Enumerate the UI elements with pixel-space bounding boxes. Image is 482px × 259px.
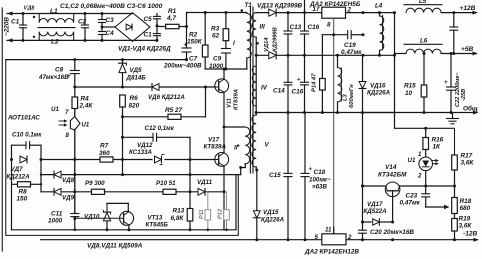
wire bbox=[395, 55, 455, 155]
wire +12V feed bbox=[393, 11, 396, 128]
zener VD12 bbox=[129, 142, 164, 165]
svg-text:+5В: +5В bbox=[461, 46, 474, 53]
svg-text:С16: С16 bbox=[292, 89, 304, 96]
svg-text:КД226А: КД226А bbox=[367, 90, 391, 97]
svg-text:R19: R19 bbox=[459, 216, 471, 223]
resistor R7 bbox=[99, 143, 113, 163]
wire bbox=[205, 68, 247, 71]
transistor VT13 bbox=[75, 203, 169, 231]
capacitor C6 bbox=[144, 26, 161, 42]
svg-text:2: 2 bbox=[347, 234, 352, 241]
svg-text:R1: R1 bbox=[168, 8, 177, 15]
capacitor C7 bbox=[163, 13, 202, 70]
wire base line bbox=[361, 185, 456, 188]
inductor L3 bbox=[336, 54, 355, 113]
svg-text:U1: U1 bbox=[408, 157, 416, 164]
svg-text:VД8: VД8 bbox=[62, 177, 75, 184]
svg-text:200мк~400В: 200мк~400В bbox=[163, 63, 202, 70]
svg-text:С1,С2 0,068мк~400В С3-С6 10: С1,С2 0,068мк~400В С3-С6 1000 bbox=[60, 3, 163, 10]
capacitor C4 bbox=[99, 26, 115, 42]
capacitor C23 bbox=[400, 186, 430, 207]
svg-text:Р11: Р11 bbox=[199, 209, 205, 219]
svg-text:VД17: VД17 bbox=[367, 201, 383, 208]
node ~220V label bbox=[4, 17, 11, 36]
wire -12V rail bbox=[41, 238, 477, 241]
svg-text:С14: С14 bbox=[273, 88, 285, 95]
wire pin 8 bbox=[327, 18, 335, 234]
svg-text:VД12: VД12 bbox=[137, 142, 153, 149]
transistor V11 bbox=[215, 69, 240, 129]
svg-text:ДА2 КР142ЕН12В: ДА2 КР142ЕН12В bbox=[304, 249, 359, 256]
wire scan border bbox=[1, 8, 3, 251]
node +5V output bbox=[461, 46, 478, 55]
inductor L5 bbox=[404, 0, 476, 13]
svg-text:С7: С7 bbox=[189, 56, 198, 63]
svg-text:IV: IV bbox=[261, 85, 268, 92]
diode VD9 bbox=[41, 188, 224, 201]
svg-text:11: 11 bbox=[325, 227, 332, 234]
svg-text:3,6К: 3,6К bbox=[459, 223, 473, 230]
svg-text:С11: С11 bbox=[51, 211, 63, 218]
capacitor C13 bbox=[284, 13, 302, 56]
svg-text:0,47мк: 0,47мк bbox=[341, 49, 362, 56]
svg-text:VД9: VД9 bbox=[62, 195, 75, 202]
capacitor C1 bbox=[11, 12, 27, 42]
svg-text:Общ: Общ bbox=[463, 105, 478, 113]
resistor R19 bbox=[452, 214, 473, 242]
resistor R4 bbox=[72, 87, 93, 115]
svg-text:×63В: ×63В bbox=[312, 184, 327, 191]
node ~220V input bottom bbox=[7, 38, 157, 42]
svg-text:8: 8 bbox=[66, 132, 70, 139]
transformer T1 core bbox=[245, 2, 254, 173]
svg-text:R15: R15 bbox=[404, 83, 416, 90]
wire DC+ rail bbox=[187, 11, 247, 14]
wire minus bus bbox=[6, 58, 188, 61]
svg-text:R13: R13 bbox=[173, 208, 185, 215]
inductor L2 bbox=[33, 32, 74, 46]
svg-text:3,6К: 3,6К bbox=[461, 160, 475, 167]
svg-text:III: III bbox=[260, 24, 265, 31]
svg-text:7: 7 bbox=[65, 109, 69, 116]
diode VD15 bbox=[253, 170, 284, 240]
wire drive line bbox=[40, 158, 216, 161]
svg-text:КД212А: КД212А bbox=[7, 174, 31, 181]
capacitor C16 bbox=[301, 13, 320, 56]
op-amp U2 DA2 regulator KR142EN5B bbox=[309, 1, 361, 18]
resistor R13 bbox=[171, 160, 193, 230]
svg-text:6,8К: 6,8К bbox=[171, 215, 185, 222]
svg-text:VД6 КД212А: VД6 КД212А bbox=[148, 94, 185, 101]
resistor R12 bbox=[218, 192, 230, 231]
diode bridge VD1-VD4 bbox=[115, 13, 171, 53]
capacitor C15 bbox=[269, 113, 292, 242]
svg-text:L6: L6 bbox=[420, 38, 428, 45]
svg-text:КТ839А: КТ839А bbox=[204, 144, 227, 151]
svg-text:R5 27: R5 27 bbox=[165, 107, 182, 114]
svg-text:0,47мк: 0,47мк bbox=[400, 200, 421, 207]
resistor R11 bbox=[199, 192, 211, 231]
svg-text:С23: С23 bbox=[406, 193, 418, 200]
capacitor C18 bbox=[301, 113, 331, 242]
svg-text:С15: С15 bbox=[269, 172, 281, 179]
svg-text:L4: L4 bbox=[375, 3, 383, 10]
svg-text:4,7: 4,7 bbox=[166, 15, 176, 22]
diode VD14 bbox=[255, 27, 396, 59]
zener VD5 bbox=[119, 58, 147, 87]
svg-text:С13: С13 bbox=[290, 24, 302, 31]
wire bbox=[102, 26, 115, 28]
svg-text:С9: С9 bbox=[213, 56, 222, 63]
diode VD8 bbox=[41, 171, 241, 184]
svg-text:С19: С19 bbox=[344, 42, 356, 49]
op-amp U1 optocoupler transistor side bbox=[7, 106, 90, 214]
diode VD17 bbox=[361, 201, 394, 225]
op-amp U3 DA2 regulator KR142EN12V bbox=[304, 227, 359, 256]
label C1 C2 C3-C6 values bbox=[60, 3, 163, 10]
svg-text:VД16: VД16 bbox=[370, 83, 386, 90]
svg-text:360: 360 bbox=[99, 150, 110, 157]
node +12V output bbox=[460, 5, 479, 14]
svg-text:VД5: VД5 bbox=[130, 67, 143, 74]
transistor V14 bbox=[378, 164, 407, 222]
node -12V output bbox=[463, 231, 479, 242]
transformer T1 winding III bbox=[252, 13, 265, 115]
transformer T1 winding V bbox=[252, 115, 270, 172]
diode VD16 bbox=[359, 55, 390, 112]
svg-text:L1: L1 bbox=[50, 8, 58, 15]
svg-text:С8: С8 bbox=[55, 67, 64, 74]
svg-text:II: II bbox=[234, 145, 238, 152]
capacitor C17 bbox=[292, 55, 309, 114]
svg-text:5: 5 bbox=[315, 234, 319, 241]
svg-text:-12В: -12В bbox=[463, 231, 478, 238]
transistor V17 bbox=[204, 127, 229, 230]
svg-text:VД15: VД15 bbox=[263, 209, 279, 216]
svg-text:100мк~: 100мк~ bbox=[309, 177, 331, 184]
svg-text:47мк×16В: 47мк×16В bbox=[38, 74, 69, 81]
svg-text:U1: U1 bbox=[82, 123, 90, 129]
wire common rail bbox=[255, 105, 479, 115]
svg-text:L3: L3 bbox=[343, 93, 349, 101]
svg-text:КТ342БМ: КТ342БМ bbox=[378, 172, 407, 179]
svg-text:R7: R7 bbox=[100, 143, 109, 150]
svg-text:С1: С1 bbox=[144, 32, 153, 39]
resistor R18 potentiometer bbox=[452, 186, 472, 214]
capacitor C22 bbox=[444, 52, 467, 113]
wire primary common rail bbox=[12, 175, 237, 232]
wire wiper arrow bbox=[426, 205, 450, 209]
svg-text:R17: R17 bbox=[461, 153, 473, 160]
svg-text:С4: С4 bbox=[106, 30, 115, 37]
svg-text:V14: V14 bbox=[385, 164, 397, 171]
svg-text:КТ645Б: КТ645Б bbox=[146, 222, 169, 229]
svg-text:2: 2 bbox=[417, 173, 422, 180]
svg-text:R4: R4 bbox=[81, 96, 90, 103]
resistor R16 bbox=[423, 128, 444, 157]
svg-text:С16: С16 bbox=[308, 24, 320, 31]
resistor R3 bbox=[211, 13, 229, 41]
svg-text:КТ839А: КТ839А bbox=[234, 89, 240, 110]
svg-text:С20 20мк×16В: С20 20мк×16В bbox=[370, 229, 414, 236]
svg-text:С18: С18 bbox=[314, 169, 326, 176]
node ~220V input top bbox=[7, 6, 133, 16]
svg-text:С5: С5 bbox=[144, 16, 153, 23]
svg-text:Д814Б: Д814Б bbox=[126, 75, 147, 82]
svg-text:V17: V17 bbox=[208, 137, 220, 144]
svg-text:820: 820 bbox=[129, 103, 140, 110]
svg-text:КД2999В: КД2999В bbox=[273, 27, 279, 52]
transformer T1 winding I bbox=[233, 9, 251, 69]
capacitor C14 bbox=[273, 55, 292, 114]
resistor R2 bbox=[187, 13, 208, 70]
svg-text:600мкГн: 600мкГн bbox=[349, 84, 355, 108]
svg-text:V: V bbox=[265, 142, 270, 149]
svg-text:~220В: ~220В bbox=[4, 17, 11, 36]
svg-text:I: I bbox=[233, 40, 235, 47]
svg-text:R2: R2 bbox=[189, 32, 198, 39]
wire riser bbox=[40, 160, 42, 192]
svg-text:10: 10 bbox=[405, 90, 413, 97]
svg-text:КС133А: КС133А bbox=[129, 149, 153, 156]
capacitor C9 bbox=[209, 41, 230, 70]
resistor R17 bbox=[452, 153, 475, 187]
svg-text:R16: R16 bbox=[432, 137, 444, 144]
op-amp U1 optocoupler LED side bbox=[408, 151, 439, 186]
svg-text:+12В: +12В bbox=[460, 5, 476, 12]
svg-text:+: + bbox=[309, 167, 313, 173]
resistor R15 bbox=[404, 52, 427, 113]
transformer T1 winding II bbox=[224, 127, 250, 175]
inductor L4 bbox=[375, 3, 384, 57]
wire bbox=[304, 0, 306, 13]
svg-text:Р12: Р12 bbox=[218, 208, 224, 219]
svg-text:1: 1 bbox=[418, 151, 422, 158]
svg-text:С2: С2 bbox=[78, 19, 87, 26]
svg-text:С1: С1 bbox=[11, 19, 20, 26]
svg-text:-25В: -25В bbox=[461, 89, 467, 101]
wire core of L1 L2 bbox=[38, 27, 75, 29]
capacitor C19 bbox=[322, 31, 364, 56]
svg-text:VД8,VД11 КД509А: VД8,VД11 КД509А bbox=[87, 243, 143, 250]
svg-text:С10 0,1мк: С10 0,1мк bbox=[12, 132, 42, 139]
resistor R1 bbox=[156, 8, 189, 29]
svg-text:Т1: Т1 bbox=[245, 2, 253, 9]
svg-text:17: 17 bbox=[313, 6, 320, 13]
resistor R10 bbox=[156, 180, 176, 194]
svg-text:V11: V11 bbox=[227, 98, 233, 108]
svg-text:U1: U1 bbox=[51, 106, 59, 113]
svg-text:Р10 51: Р10 51 bbox=[156, 180, 176, 187]
svg-text:VД13 КД2999В: VД13 КД2999В bbox=[257, 3, 303, 10]
svg-text:VД7: VД7 bbox=[11, 166, 24, 173]
svg-text:680: 680 bbox=[460, 205, 471, 212]
capacitor C11 bbox=[48, 129, 79, 231]
resistor R9 bbox=[85, 180, 105, 194]
svg-text:Р9 300: Р9 300 bbox=[85, 180, 105, 187]
inductor L1 bbox=[33, 8, 74, 23]
zener VD10 bbox=[84, 203, 111, 231]
capacitor C3 bbox=[99, 12, 115, 27]
svg-text:L5: L5 bbox=[419, 0, 427, 5]
diode VD11 bbox=[197, 179, 213, 195]
resistor R5 bbox=[123, 87, 206, 119]
resistor R14 bbox=[312, 35, 326, 114]
svg-text:L2: L2 bbox=[51, 39, 59, 46]
capacitor C10 bbox=[12, 132, 43, 160]
label VD8 VD11 type bbox=[87, 243, 143, 250]
svg-text:1К: 1К bbox=[433, 144, 442, 151]
svg-text:С3: С3 bbox=[106, 17, 115, 24]
svg-text:VД1-VД4 КД226Д: VД1-VД4 КД226Д bbox=[118, 46, 171, 53]
inductor L6 bbox=[395, 38, 476, 54]
svg-text:62: 62 bbox=[212, 33, 220, 40]
wire bbox=[363, 112, 395, 114]
svg-text:АОТ101АС: АОТ101АС bbox=[7, 115, 40, 122]
wire bbox=[10, 145, 13, 230]
svg-text:150К: 150К bbox=[187, 39, 203, 46]
svg-text:VД11: VД11 bbox=[197, 179, 213, 186]
wire pin 2 bbox=[346, 11, 395, 14]
svg-text:ѴД8: ѴД8 bbox=[24, 6, 35, 12]
capacitor C12 bbox=[123, 125, 191, 160]
svg-text:VД10: VД10 bbox=[84, 214, 100, 221]
wire frame border bbox=[6, 60, 239, 236]
diode VD7 bbox=[7, 156, 31, 180]
svg-text:+: + bbox=[444, 80, 448, 86]
svg-text:С12 0,1мк: С12 0,1мк bbox=[145, 125, 175, 132]
svg-text:КД226А: КД226А bbox=[261, 217, 285, 224]
svg-text:R3: R3 bbox=[211, 26, 220, 33]
capacitor C5 bbox=[144, 14, 161, 26]
resistor R6 bbox=[120, 95, 140, 175]
svg-text:R6: R6 bbox=[130, 95, 139, 102]
svg-text:1000: 1000 bbox=[48, 218, 63, 225]
ground bbox=[447, 113, 459, 124]
transformer T1 winding IV bbox=[252, 66, 268, 106]
capacitor C20 bbox=[359, 113, 415, 240]
svg-text:2,4К: 2,4К bbox=[79, 103, 94, 110]
capacitor C21 bbox=[450, 11, 458, 55]
wire base bus V11 bbox=[73, 86, 215, 89]
svg-text:VТ13: VТ13 bbox=[148, 215, 163, 222]
diode VD6 bbox=[148, 84, 185, 101]
svg-text:VД14: VД14 bbox=[264, 37, 270, 52]
svg-text:Р14 47: Р14 47 bbox=[312, 73, 318, 92]
svg-text:КД522А: КД522А bbox=[364, 208, 388, 215]
svg-text:8: 8 bbox=[327, 22, 331, 29]
svg-text:R8: R8 bbox=[19, 189, 28, 196]
capacitor C2 bbox=[78, 12, 89, 42]
svg-text:R18: R18 bbox=[460, 198, 472, 205]
svg-text:150: 150 bbox=[17, 196, 28, 203]
capacitor C8 bbox=[38, 60, 79, 87]
resistor R8 bbox=[12, 182, 42, 203]
diode VD13 bbox=[256, 3, 322, 17]
